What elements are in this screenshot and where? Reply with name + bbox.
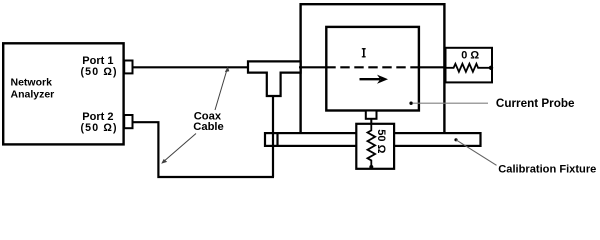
svg-text:50 Ω: 50 Ω [375,129,387,153]
svg-text:(50 Ω): (50 Ω) [81,66,117,78]
svg-text:Current Probe: Current Probe [496,97,575,110]
svg-text:Network: Network [11,76,53,88]
svg-text:0 Ω: 0 Ω [461,50,479,62]
svg-text:Calibration Fixture: Calibration Fixture [498,164,596,176]
svg-text:(50 Ω): (50 Ω) [81,122,117,134]
svg-text:Analyzer: Analyzer [11,88,55,100]
svg-text:Cable: Cable [193,121,223,133]
